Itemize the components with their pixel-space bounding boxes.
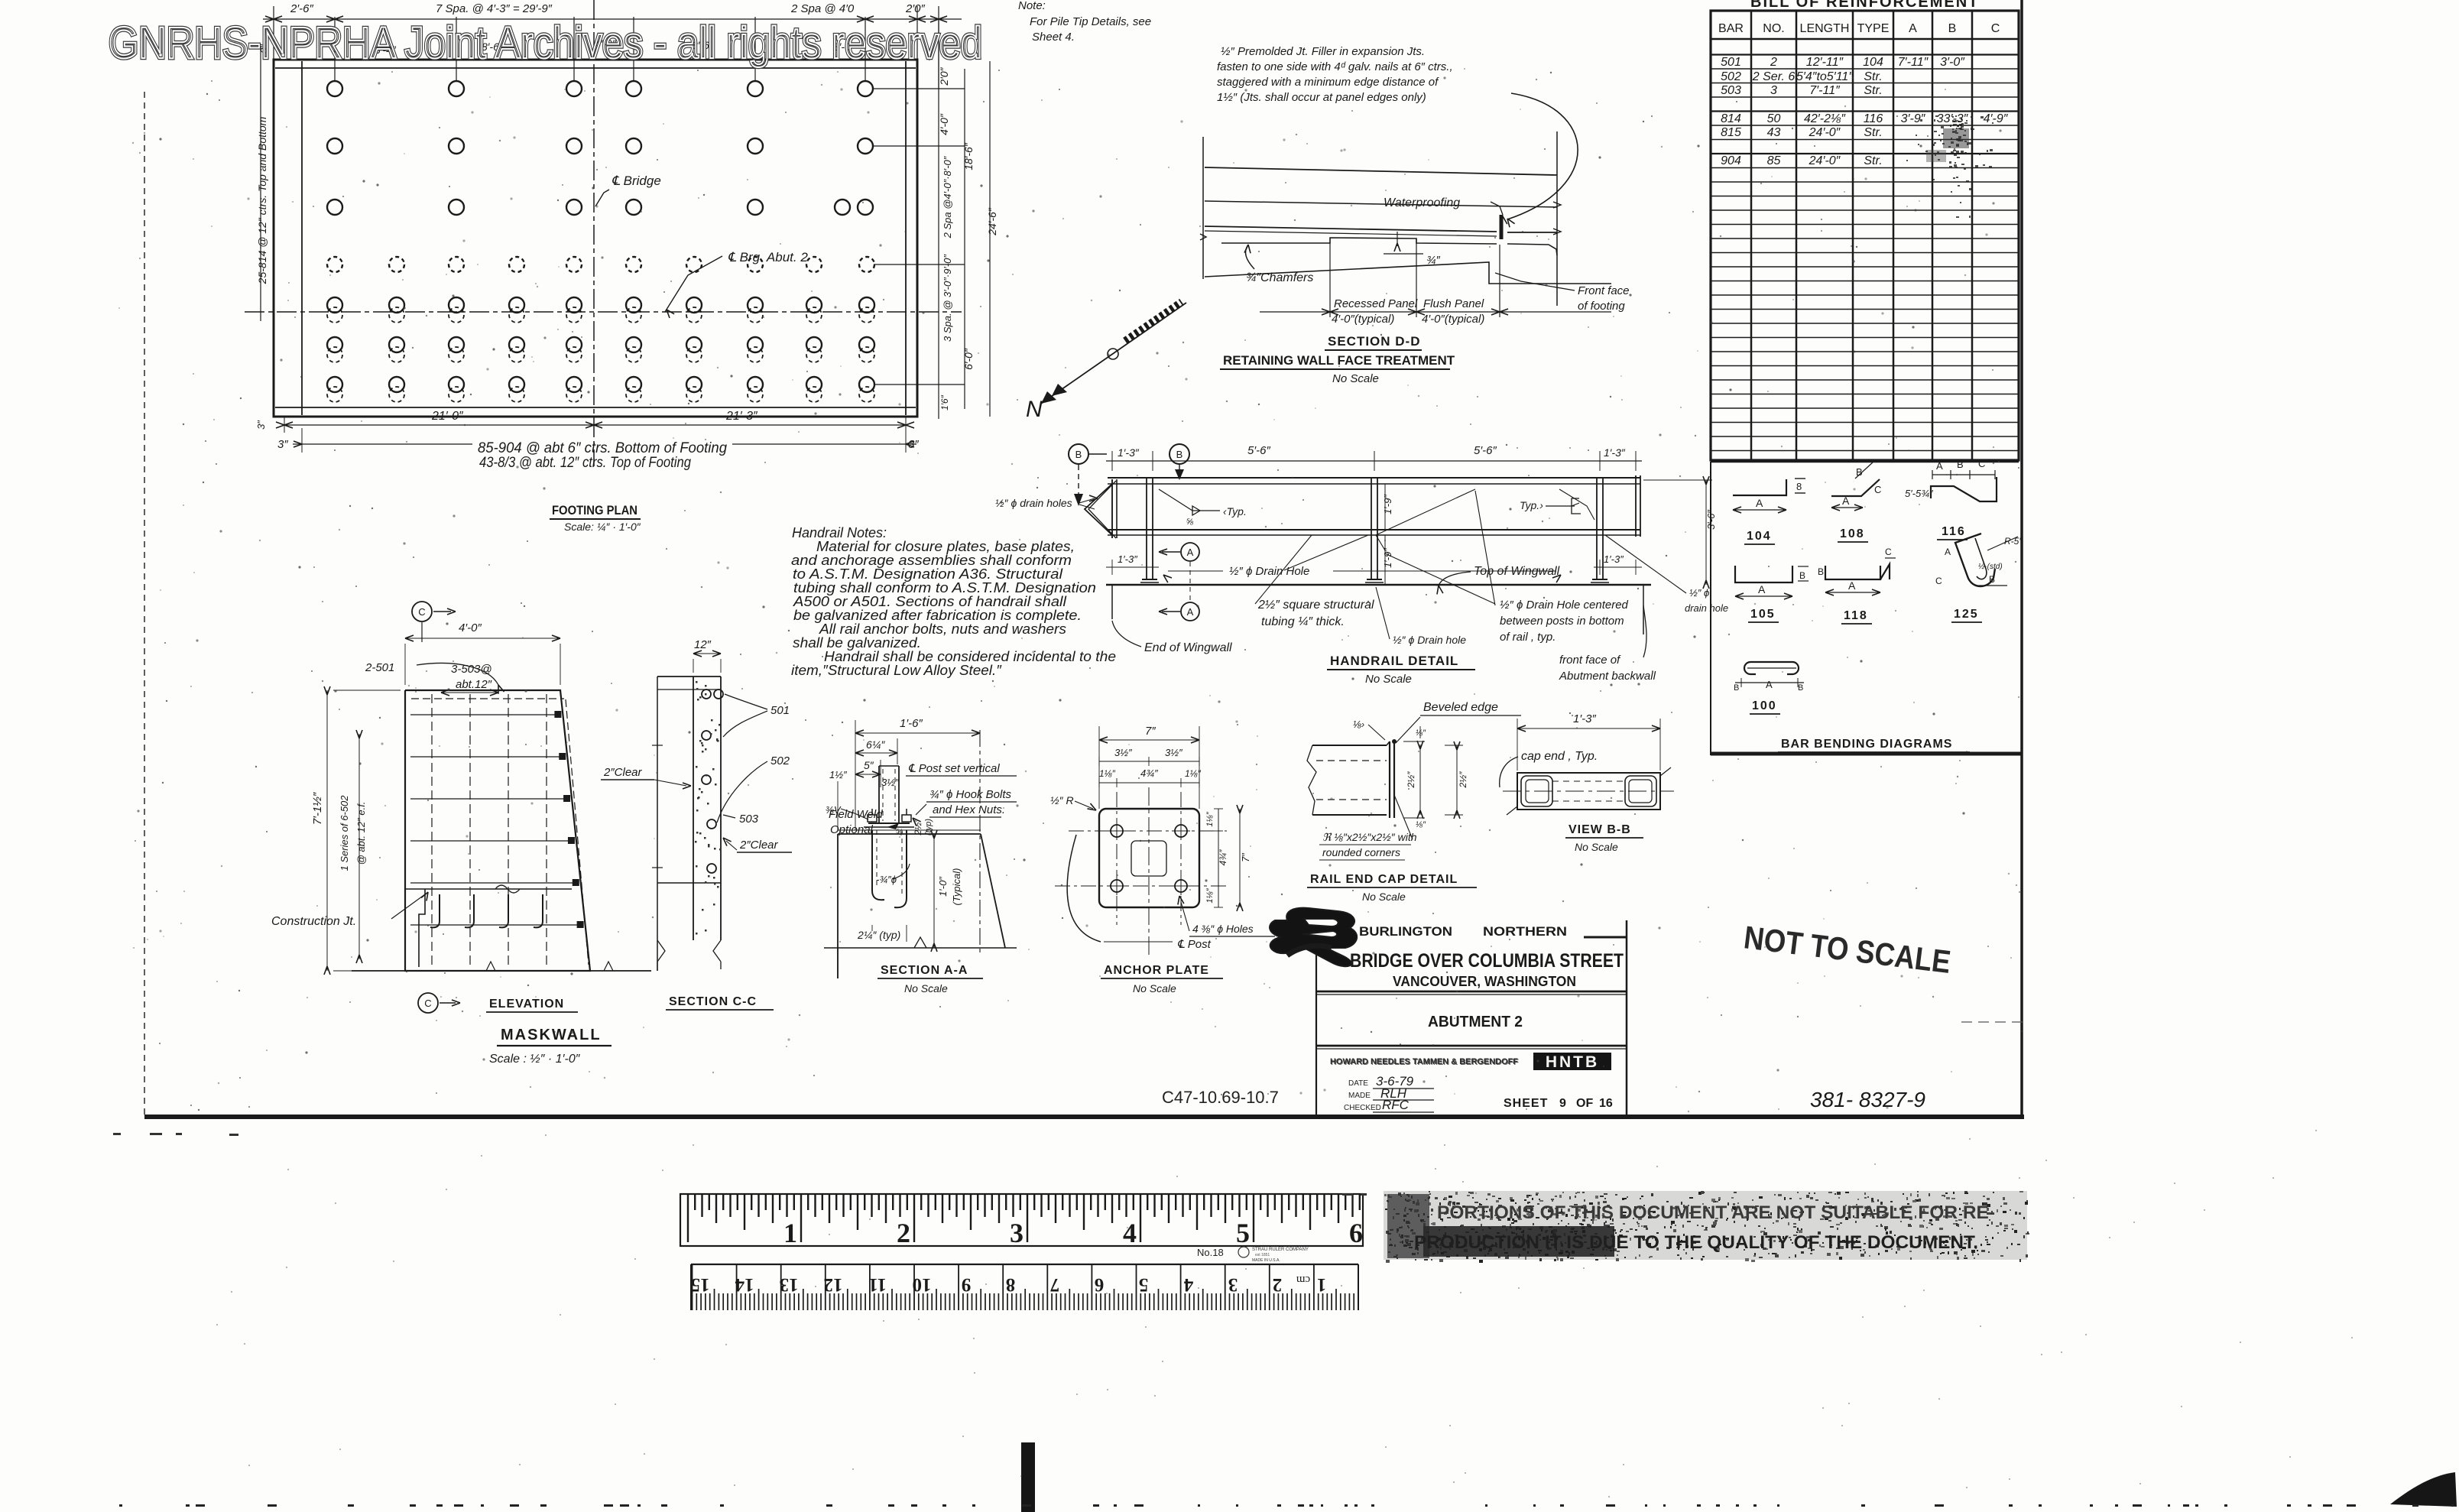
svg-text:SECTION C-C: SECTION C-C bbox=[669, 995, 757, 1008]
svg-text:2 Ser. 6: 2 Ser. 6 bbox=[1752, 70, 1796, 83]
svg-text:PORTIONS OF THIS DOCUMENT ARE: PORTIONS OF THIS DOCUMENT ARE NOT SUITAB… bbox=[1437, 1202, 1995, 1223]
svg-text:A: A bbox=[1756, 497, 1763, 509]
svg-text:2½″: 2½″ bbox=[913, 819, 923, 836]
svg-text:B: B bbox=[1798, 683, 1803, 693]
svg-text:3″: 3″ bbox=[255, 420, 267, 430]
maskwall top rebar dashed bbox=[411, 698, 564, 699]
svg-text:108: 108 bbox=[1840, 527, 1865, 540]
svg-text:1: 1 bbox=[1317, 1274, 1327, 1295]
panel divider verticals bbox=[1329, 243, 1331, 317]
svg-text:104: 104 bbox=[1863, 56, 1883, 69]
svg-text:2 Spa @ 4′0: 2 Spa @ 4′0 bbox=[790, 2, 855, 15]
svg-text:381- 8327-9: 381- 8327-9 bbox=[1810, 1088, 1925, 1111]
svg-text:16: 16 bbox=[1599, 1097, 1613, 1110]
section D-D bottom sloped line bbox=[1205, 262, 1611, 284]
wingwall left end vertical bbox=[1111, 585, 1113, 619]
svg-text:C: C bbox=[1978, 458, 1985, 469]
cap outline right bbox=[1625, 776, 1656, 806]
A section markers bbox=[1181, 543, 1199, 561]
svg-text:25-814 @ 12″ ctrs. Top and Bot: 25-814 @ 12″ ctrs. Top and Bottom bbox=[256, 116, 268, 284]
svg-text:3″: 3″ bbox=[277, 438, 288, 451]
ground line bbox=[824, 947, 1017, 949]
svg-text:B: B bbox=[1799, 570, 1805, 581]
section C-C left projection line bbox=[657, 677, 658, 971]
svg-text:C: C bbox=[1874, 484, 1881, 495]
step at bottom left bbox=[419, 889, 425, 967]
svg-text:½″ ϕ Drain hole: ½″ ϕ Drain hole bbox=[1393, 634, 1466, 646]
svg-text:and Hex Nuts.: and Hex Nuts. bbox=[933, 803, 1005, 816]
inch ruler body bbox=[680, 1194, 1363, 1246]
base plate bbox=[868, 823, 910, 824]
svg-text:5′-5¾″: 5′-5¾″ bbox=[1905, 488, 1933, 499]
svg-text:12″: 12″ bbox=[694, 638, 712, 651]
svg-text:to A.S.T.M. Designation A36: to A.S.T.M. Designation A36. Structural bbox=[793, 566, 1063, 582]
svg-text:@ abt. 12″ e.f.: @ abt. 12″ e.f. bbox=[355, 802, 367, 865]
diagram 118 bbox=[1825, 566, 1880, 579]
svg-text:B: B bbox=[1989, 574, 1995, 585]
svg-text:All rail anchor bolts, nuts: All rail anchor bolts, nuts and washers bbox=[819, 621, 1066, 637]
svg-text:A: A bbox=[1936, 460, 1943, 472]
svg-text:est 1851: est 1851 bbox=[1255, 1253, 1270, 1257]
svg-text:item,″Structural Low Alloy St: item,″Structural Low Alloy Steel.″ bbox=[791, 663, 1002, 678]
svg-text:7′-11″: 7′-11″ bbox=[1809, 84, 1841, 97]
svg-text:2 Spa @4′-0″·8′-0″: 2 Spa @4′-0″·8′-0″ bbox=[942, 156, 953, 238]
svg-text:C: C bbox=[1885, 547, 1892, 557]
svg-text:staggered with a minimum edge: staggered with a minimum edge distance o… bbox=[1217, 76, 1439, 89]
dim 5 bbox=[855, 774, 881, 775]
section A-A dim 1-6 bbox=[855, 732, 980, 734]
bottom black bar bbox=[1021, 1442, 1035, 1512]
svg-text:3′-6″: 3′-6″ bbox=[1705, 510, 1717, 530]
svg-text:Typ.›: Typ.› bbox=[1520, 499, 1543, 511]
svg-text:‹Typ.: ‹Typ. bbox=[1223, 505, 1247, 518]
title block line 2 bbox=[1316, 1045, 1627, 1047]
svg-text:abt.12″: abt.12″ bbox=[456, 678, 492, 691]
svg-text:½″ ϕ: ½″ ϕ bbox=[1689, 587, 1709, 599]
svg-text:815: 815 bbox=[1721, 126, 1741, 139]
svg-text:A: A bbox=[1187, 606, 1194, 618]
svg-text:Scale : ½″ · 1′-0″: Scale : ½″ · 1′-0″ bbox=[489, 1053, 581, 1066]
panel dim line bbox=[1260, 311, 1611, 313]
C section marker top bbox=[412, 602, 432, 621]
section D-D left edge bbox=[1202, 137, 1204, 279]
svg-text:4¾″: 4¾″ bbox=[1140, 767, 1158, 779]
svg-text:116: 116 bbox=[1864, 112, 1883, 125]
svg-text:TYPE: TYPE bbox=[1857, 22, 1890, 35]
svg-text:7 Spa. @ 4′-3″ = 29′-9″: 7 Spa. @ 4′-3″ = 29′-9″ bbox=[436, 2, 553, 15]
svg-text:1′-3″: 1′-3″ bbox=[1118, 446, 1140, 459]
section D-D panel face line bbox=[1221, 238, 1497, 244]
drain hole leaders mid bbox=[1284, 535, 1368, 570]
B section markers bbox=[1069, 444, 1088, 464]
svg-text:1′-3″: 1′-3″ bbox=[1604, 446, 1626, 459]
pile circles row 3 bbox=[327, 200, 342, 215]
svg-text:4′-0″(typical): 4′-0″(typical) bbox=[1422, 313, 1484, 326]
right side dims bbox=[1218, 809, 1219, 907]
section D-D right edge bbox=[1556, 131, 1558, 306]
svg-text:3: 3 bbox=[1228, 1274, 1238, 1295]
scattered scan specks bbox=[595, 205, 598, 207]
svg-text:Scale: ¼″ · 1′-0″: Scale: ¼″ · 1′-0″ bbox=[564, 521, 641, 533]
svg-text:cm: cm bbox=[1296, 1274, 1311, 1286]
svg-text:No Scale: No Scale bbox=[1362, 891, 1406, 903]
svg-text:503: 503 bbox=[1721, 84, 1741, 97]
svg-text:NORTHERN: NORTHERN bbox=[1483, 924, 1567, 939]
maskwall vertical rebars bbox=[431, 694, 433, 967]
svg-text:1 Series of 6-502: 1 Series of 6-502 bbox=[339, 795, 350, 871]
footing hooks bbox=[430, 894, 440, 927]
svg-text:⅛″: ⅛″ bbox=[1416, 728, 1426, 738]
svg-text:1′6″: 1′6″ bbox=[939, 394, 950, 410]
svg-text:11: 11 bbox=[868, 1274, 887, 1295]
svg-text:13: 13 bbox=[780, 1274, 799, 1295]
svg-text:501: 501 bbox=[770, 704, 790, 717]
svg-text:Construction Jt.: Construction Jt. bbox=[271, 915, 356, 928]
svg-text:C: C bbox=[1935, 576, 1942, 586]
section D-D line 2 bbox=[1205, 201, 1557, 207]
svg-text:tubing shall conform to A.: tubing shall conform to A.S.T.M. Designa… bbox=[793, 580, 1096, 595]
svg-text:Str.: Str. bbox=[1864, 70, 1882, 83]
hole centerlines bbox=[1069, 830, 1227, 832]
pile circles row 1 bbox=[327, 81, 342, 96]
svg-text:503: 503 bbox=[739, 813, 759, 826]
svg-text:B: B bbox=[1957, 459, 1964, 470]
left end plate bbox=[1111, 479, 1113, 538]
bolt holes bbox=[1111, 825, 1123, 837]
logo lower stroke bbox=[1287, 946, 1332, 956]
stamp dark blotch left bbox=[1423, 1226, 1614, 1257]
svg-text:B: B bbox=[1818, 566, 1824, 577]
hook bolts and nuts bbox=[868, 815, 877, 822]
maskwall inner dim series bbox=[358, 734, 360, 959]
bottom dim line 21-0 / 21-3 bbox=[284, 424, 906, 426]
svg-text:10: 10 bbox=[913, 1274, 932, 1295]
1-3 dims at wingwall bbox=[1106, 566, 1159, 568]
table smudges bbox=[1955, 124, 1957, 125]
sheet bottom border bbox=[144, 1115, 2024, 1119]
svg-text:℄ Bridge: ℄ Bridge bbox=[612, 174, 661, 188]
top of wingwall line bbox=[1106, 584, 1651, 586]
concrete stipple bbox=[699, 788, 701, 790]
left dim vertical line bbox=[260, 46, 261, 321]
svg-text:Note:: Note: bbox=[1018, 0, 1046, 12]
svg-text:B: B bbox=[1948, 22, 1957, 35]
svg-text:4′-0″(typical): 4′-0″(typical) bbox=[1332, 313, 1394, 326]
HNTB logo bbox=[1533, 1053, 1611, 1070]
right end cap bbox=[1635, 475, 1637, 537]
bar bending box top edge bbox=[1711, 461, 2019, 463]
svg-text:C: C bbox=[418, 606, 425, 618]
svg-text:100: 100 bbox=[1752, 699, 1777, 712]
title block line 1 bbox=[1316, 991, 1627, 993]
middle rail tube bbox=[1108, 529, 1640, 530]
handrail top dim line bbox=[1106, 460, 1642, 462]
svg-text:7′-1½″: 7′-1½″ bbox=[311, 792, 324, 825]
pile circles row 2 bbox=[327, 138, 342, 154]
svg-text:9: 9 bbox=[1559, 1097, 1566, 1110]
svg-text:15: 15 bbox=[691, 1274, 710, 1295]
svg-text:3″: 3″ bbox=[908, 438, 919, 451]
right dim vertical lines bbox=[938, 19, 939, 419]
svg-text:24′-0″: 24′-0″ bbox=[1809, 154, 1841, 167]
svg-text:½″ ϕ Drain Hole: ½″ ϕ Drain Hole bbox=[1229, 565, 1309, 578]
svg-text:Abutment backwall: Abutment backwall bbox=[1559, 670, 1656, 683]
3/4 dim bbox=[1397, 232, 1398, 246]
svg-text:⅛›: ⅛› bbox=[1353, 719, 1364, 730]
section C-C bottom break bbox=[657, 940, 665, 962]
rail tube side view bbox=[1312, 745, 1387, 746]
svg-text:2′0″: 2′0″ bbox=[938, 67, 950, 86]
svg-text:HNTB: HNTB bbox=[1546, 1053, 1599, 1071]
svg-text:A: A bbox=[1842, 495, 1850, 507]
footing plan inner wall line left bbox=[301, 61, 303, 415]
metric ruler top edge bbox=[691, 1264, 1358, 1265]
svg-text:18′-6″: 18′-6″ bbox=[962, 142, 975, 170]
section C-C construction joint bbox=[657, 882, 721, 884]
svg-text:502: 502 bbox=[1721, 70, 1741, 83]
svg-text:⅝: ⅝ bbox=[1186, 518, 1194, 527]
leader arc from note to joint bbox=[1507, 93, 1578, 219]
svg-text:2-501: 2-501 bbox=[365, 661, 394, 674]
svg-text:⅜V: ⅜V bbox=[826, 804, 842, 816]
svg-text:2′0″: 2′0″ bbox=[905, 2, 925, 15]
svg-text:4′-0″: 4′-0″ bbox=[459, 621, 482, 634]
svg-text:SHEET: SHEET bbox=[1504, 1097, 1548, 1110]
svg-text:21′-3″: 21′-3″ bbox=[725, 410, 758, 423]
pile circles row 4 bbox=[327, 257, 342, 272]
svg-text:BURLINGTON: BURLINGTON bbox=[1359, 924, 1452, 939]
svg-text:R-5″: R-5″ bbox=[2004, 536, 2023, 547]
svg-text:2½″ square structural: 2½″ square structural bbox=[1257, 599, 1374, 612]
centerline bbox=[1503, 790, 1674, 792]
svg-text:1′-3″: 1′-3″ bbox=[1118, 553, 1137, 565]
svg-text:6: 6 bbox=[1349, 1218, 1363, 1248]
svg-text:1⅛″: 1⅛″ bbox=[1185, 768, 1202, 779]
bottom dotted scan line bbox=[119, 1504, 122, 1507]
svg-text:¾″Chamfers: ¾″Chamfers bbox=[1246, 271, 1313, 284]
svg-text:A: A bbox=[1187, 547, 1194, 558]
svg-text:5′-6″: 5′-6″ bbox=[1247, 444, 1270, 457]
svg-text:B: B bbox=[1734, 683, 1739, 693]
maskwall 4-0 dim bbox=[405, 638, 560, 639]
svg-text:A: A bbox=[1945, 547, 1951, 557]
svg-text:33′-3″: 33′-3″ bbox=[1937, 112, 1969, 125]
diagram 104 bbox=[1733, 479, 1786, 495]
svg-text:21′-0″: 21′-0″ bbox=[431, 410, 464, 423]
svg-text:C47-10.69-10.7: C47-10.69-10.7 bbox=[1162, 1088, 1279, 1107]
svg-text:ELEVATION: ELEVATION bbox=[489, 998, 564, 1011]
svg-text:12′-11″: 12′-11″ bbox=[1806, 56, 1844, 69]
svg-text:Sheet 4.: Sheet 4. bbox=[1032, 31, 1075, 44]
svg-text:LENGTH: LENGTH bbox=[1800, 22, 1850, 35]
svg-text:814: 814 bbox=[1721, 112, 1741, 125]
svg-text:of footing: of footing bbox=[1578, 300, 1625, 313]
waterproofing joint thick bar bbox=[1500, 215, 1504, 239]
diagram 100 bbox=[1744, 662, 1799, 674]
svg-text:GNRHS-NPRHA Joint Archives - a: GNRHS-NPRHA Joint Archives - all rights … bbox=[109, 18, 982, 68]
svg-text:¾″ ϕ Hook Bolts: ¾″ ϕ Hook Bolts bbox=[929, 788, 1012, 801]
svg-text:4: 4 bbox=[1123, 1218, 1137, 1248]
metric ruler mm ticks bbox=[696, 1289, 1354, 1310]
bill table row lines bbox=[1711, 54, 2019, 55]
footing plan inner wall line bottom bbox=[275, 407, 916, 408]
svg-text:105: 105 bbox=[1750, 608, 1776, 621]
svg-text:CHECKED: CHECKED bbox=[1344, 1104, 1381, 1112]
svg-text:tubing ¼″ thick.: tubing ¼″ thick. bbox=[1261, 615, 1345, 628]
svg-text:STRAU RULER COMPANY: STRAU RULER COMPANY bbox=[1252, 1248, 1309, 1252]
svg-text:ℜ ⅛″x2½″x2½″ with: ℜ ⅛″x2½″x2½″ with bbox=[1322, 831, 1417, 843]
svg-text:FOOTING PLAN: FOOTING PLAN bbox=[552, 503, 637, 518]
svg-text:MADE IN U.S.A.: MADE IN U.S.A. bbox=[1252, 1258, 1280, 1263]
svg-text:1⅛″: 1⅛″ bbox=[1205, 811, 1215, 826]
svg-text:BRIDGE OVER COLUMBIA STREET: BRIDGE OVER COLUMBIA STREET bbox=[1350, 950, 1624, 972]
svg-text:2¼″ (typ): 2¼″ (typ) bbox=[857, 929, 900, 941]
battered pile circles row 5 bbox=[327, 297, 342, 313]
footing plan inner wall line top bbox=[275, 67, 916, 69]
svg-text:NO.: NO. bbox=[1763, 22, 1784, 35]
bill table header row bbox=[1711, 38, 2019, 40]
handrail posts bbox=[1146, 478, 1147, 579]
post tube bbox=[878, 766, 880, 823]
svg-text:502: 502 bbox=[770, 754, 790, 767]
svg-text:6′-0″: 6′-0″ bbox=[962, 348, 975, 370]
svg-text:42′-2⅛″: 42′-2⅛″ bbox=[1804, 112, 1846, 125]
svg-text:No Scale: No Scale bbox=[1575, 841, 1618, 853]
svg-text:¾″: ¾″ bbox=[1426, 254, 1441, 267]
svg-text:7: 7 bbox=[1050, 1274, 1060, 1295]
anchor plate 3.5 dims bbox=[1099, 761, 1199, 762]
north arrow bbox=[1041, 303, 1186, 404]
svg-text:1′-9″: 1′-9″ bbox=[1382, 495, 1393, 514]
wall top surface bbox=[838, 833, 981, 835]
bottom dim line with 3in ends bbox=[293, 443, 472, 445]
right side pile leader lines bbox=[872, 88, 965, 89]
svg-text:Flush Panel: Flush Panel bbox=[1423, 297, 1484, 310]
ground line bbox=[352, 970, 651, 972]
svg-text:24′-0″: 24′-0″ bbox=[1809, 126, 1841, 139]
top rail tube bbox=[1108, 477, 1640, 479]
section C-C 12in dim bbox=[693, 653, 721, 654]
svg-text:½″ ϕ Drain Hole centered: ½″ ϕ Drain Hole centered bbox=[1500, 599, 1629, 612]
svg-text:7″: 7″ bbox=[1240, 853, 1251, 862]
svg-text:85-904 @ abt 6″ ctrs. Bottom o: 85-904 @ abt 6″ ctrs. Bottom of Footing bbox=[478, 440, 727, 456]
bottom left dashes under border bbox=[113, 1133, 121, 1135]
svg-text:For Pile Tip Details, see: For Pile Tip Details, see bbox=[1030, 15, 1151, 28]
svg-text:B: B bbox=[1856, 466, 1863, 478]
svg-text:½″ R: ½″ R bbox=[1050, 794, 1074, 806]
svg-text:3: 3 bbox=[1010, 1218, 1024, 1248]
wall outline bbox=[837, 834, 839, 978]
svg-text:5: 5 bbox=[1139, 1274, 1149, 1295]
construction joint line bbox=[405, 888, 572, 890]
svg-text:5: 5 bbox=[1236, 1218, 1250, 1248]
svg-text:be galvanized after fabrica: be galvanized after fabrication is compl… bbox=[793, 608, 1082, 623]
svg-text:1′-3″: 1′-3″ bbox=[1604, 553, 1624, 565]
svg-text:MASKWALL: MASKWALL bbox=[501, 1027, 602, 1043]
svg-text:Str.: Str. bbox=[1864, 126, 1882, 139]
1-9 dims between rails bbox=[1384, 484, 1386, 530]
svg-text:8: 8 bbox=[1006, 1274, 1016, 1295]
svg-text:drain hole: drain hole bbox=[1685, 602, 1728, 614]
svg-text:3½″: 3½″ bbox=[1114, 747, 1132, 758]
left end cap point bbox=[1085, 484, 1112, 535]
svg-text:ABUTMENT 2: ABUTMENT 2 bbox=[1428, 1014, 1523, 1030]
svg-text:43: 43 bbox=[1767, 126, 1781, 139]
svg-text:1⅛″: 1⅛″ bbox=[1205, 887, 1215, 903]
svg-text:2′-6″: 2′-6″ bbox=[290, 2, 313, 15]
hidden lines bbox=[1552, 780, 1625, 782]
svg-text:24′-6″: 24′-6″ bbox=[986, 207, 998, 236]
section C-C wall strip bbox=[693, 677, 694, 940]
svg-text:DATE: DATE bbox=[1348, 1079, 1368, 1088]
svg-text:6¼″: 6¼″ bbox=[866, 738, 885, 751]
svg-text:7″: 7″ bbox=[1145, 725, 1156, 738]
svg-text:2: 2 bbox=[1770, 56, 1777, 69]
svg-text:125: 125 bbox=[1954, 608, 1979, 621]
bar bending box left edge bbox=[1710, 462, 1711, 755]
svg-text:BILL OF REINFORCEMENT: BILL OF REINFORCEMENT bbox=[1750, 0, 1979, 11]
svg-text:½·(std): ½·(std) bbox=[1978, 563, 2003, 571]
svg-text:1′-0″: 1′-0″ bbox=[937, 877, 949, 897]
svg-text:℄ Brg. Abut. 2: ℄ Brg. Abut. 2 bbox=[728, 250, 808, 264]
svg-text:℄ Post: ℄ Post bbox=[1177, 938, 1212, 951]
svg-text:RAIL END CAP DETAIL: RAIL END CAP DETAIL bbox=[1310, 873, 1458, 886]
svg-text:2½″: 2½″ bbox=[1458, 771, 1468, 789]
svg-text:43-8/3 @ abt. 12″ ctrs. Top of: 43-8/3 @ abt. 12″ ctrs. Top of Footing bbox=[479, 455, 691, 471]
svg-text:No Scale: No Scale bbox=[1133, 982, 1176, 994]
bill table outer border bbox=[1711, 11, 2019, 460]
dashes left of stamp bbox=[1342, 1193, 1353, 1196]
svg-text:5′-6″: 5′-6″ bbox=[1474, 444, 1497, 457]
svg-text:MADE: MADE bbox=[1348, 1092, 1371, 1100]
maskwall outline bbox=[405, 690, 590, 971]
footing plan inner wall line right bbox=[905, 61, 907, 415]
svg-text:5′4″to5′11″: 5′4″to5′11″ bbox=[1796, 70, 1854, 83]
svg-text:½″ ϕ drain holes: ½″ ϕ drain holes bbox=[995, 497, 1072, 509]
svg-text:14: 14 bbox=[735, 1274, 754, 1295]
svg-text:12: 12 bbox=[824, 1274, 843, 1295]
svg-text:between posts in bottom: between posts in bottom bbox=[1500, 615, 1624, 628]
svg-text:3′-0″: 3′-0″ bbox=[1940, 56, 1965, 69]
top grid leader lines bbox=[334, 17, 336, 81]
centerline of bridge (vertical) bbox=[593, 0, 595, 466]
bar bending box bottom edge bbox=[1711, 752, 2022, 756]
svg-text:rounded corners: rounded corners bbox=[1322, 846, 1400, 858]
svg-text:9: 9 bbox=[962, 1274, 972, 1295]
svg-text:Str.: Str. bbox=[1864, 84, 1882, 97]
footing plan outer rectangle bbox=[274, 60, 917, 417]
C section marker bottom bbox=[418, 993, 438, 1013]
svg-text:3′-9″: 3′-9″ bbox=[1901, 112, 1926, 125]
svg-text:1½″: 1½″ bbox=[829, 769, 847, 780]
battered pile circles row 7 bbox=[327, 377, 342, 392]
svg-text:50: 50 bbox=[1767, 112, 1781, 125]
svg-text:904: 904 bbox=[1721, 154, 1741, 167]
svg-text:Front face: Front face bbox=[1578, 284, 1630, 297]
svg-text:2: 2 bbox=[897, 1218, 910, 1248]
svg-text:VIEW B-B: VIEW B-B bbox=[1569, 823, 1631, 836]
svg-text:Recessed Panel: Recessed Panel bbox=[1334, 297, 1418, 310]
section D-D top line bbox=[1205, 167, 1557, 175]
metric ruler cm cell lines bbox=[693, 1264, 1359, 1310]
svg-text:SECTION D-D: SECTION D-D bbox=[1328, 334, 1421, 349]
svg-text:3½″: 3½″ bbox=[1165, 747, 1182, 758]
svg-text:N: N bbox=[1026, 397, 1043, 422]
svg-text:½″ Premolded Jt. Filler in exp: ½″ Premolded Jt. Filler in expansion Jts… bbox=[1221, 45, 1425, 58]
svg-text:Top of Wingwall: Top of Wingwall bbox=[1474, 565, 1560, 578]
svg-text:4: 4 bbox=[1183, 1274, 1193, 1295]
svg-text:4 ⅜″ ϕ Holes: 4 ⅜″ ϕ Holes bbox=[1192, 923, 1254, 935]
